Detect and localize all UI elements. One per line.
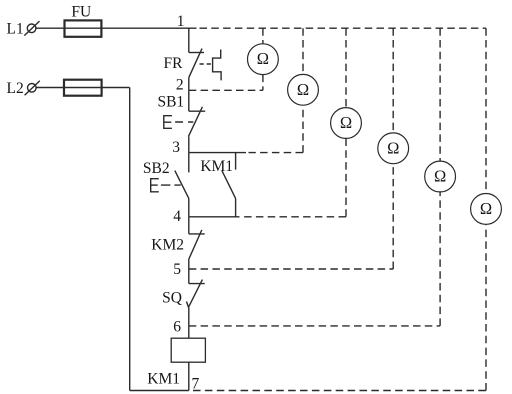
- contact KM2 (NC): [189, 217, 205, 269]
- fuse FU2: [64, 80, 102, 96]
- pushbutton SB1 (NC): [164, 107, 205, 137]
- contact KM1 (NO, parallel branch): [222, 153, 236, 217]
- coil KM1: [171, 338, 205, 362]
- wire bottom solid: [130, 390, 189, 392]
- svg-text:3: 3: [172, 139, 180, 156]
- svg-text:Ω: Ω: [340, 113, 352, 132]
- svg-text:Ω: Ω: [387, 138, 399, 157]
- terminal L2: [25, 81, 40, 96]
- svg-text:Ω: Ω: [257, 49, 269, 68]
- wire L1 to node 1: [36, 27, 197, 29]
- svg-text:FR: FR: [164, 55, 184, 72]
- wire node2 to SB1: [188, 90, 190, 111]
- wire node1 to FR: [188, 28, 190, 52]
- svg-text:L2: L2: [7, 80, 24, 97]
- svg-text:L1: L1: [7, 21, 24, 38]
- wire L2 to corner: [36, 87, 130, 89]
- svg-text:1: 1: [177, 13, 185, 30]
- svg-text:4: 4: [173, 208, 181, 225]
- svg-text:SB2: SB2: [143, 160, 170, 177]
- svg-text:FU: FU: [71, 4, 91, 21]
- wire left vertical (L2 down): [129, 88, 131, 391]
- svg-text:Ω: Ω: [434, 167, 446, 186]
- terminal L1: [24, 21, 39, 35]
- svg-text:SQ: SQ: [162, 290, 182, 307]
- wire coil to node 7: [188, 362, 190, 390]
- meter U2 (ohmmeter node1-node3): [249, 28, 319, 152]
- svg-text:SB1: SB1: [157, 94, 184, 111]
- wire FR to node 2: [188, 77, 190, 90]
- svg-text:5: 5: [173, 261, 181, 278]
- dashed bus from node 1: [200, 27, 487, 29]
- svg-text:Ω: Ω: [297, 80, 309, 99]
- svg-text:2: 2: [176, 77, 184, 94]
- svg-text:KM1: KM1: [147, 371, 180, 388]
- svg-text:7: 7: [192, 375, 200, 392]
- svg-text:Ω: Ω: [480, 199, 492, 218]
- meter U5 (ohmmeter node1-node6): [189, 28, 456, 326]
- svg-text:6: 6: [173, 319, 181, 336]
- meter U4 (ohmmeter node1-node5): [189, 28, 409, 269]
- svg-text:KM2: KM2: [151, 237, 184, 254]
- relay contact FR (NC): [189, 49, 221, 81]
- meter U1 (ohmmeter node1-node2): [189, 28, 278, 90]
- pushbutton SB2 (NO): [151, 153, 189, 217]
- wire SB1 to node 3: [188, 137, 190, 153]
- meter U3 (ohmmeter node1-node4): [240, 28, 361, 217]
- wire node6 to coil: [188, 326, 190, 338]
- fuse FU: [65, 20, 102, 36]
- limit switch SQ (NC): [187, 269, 205, 326]
- svg-text:KM1: KM1: [200, 158, 233, 175]
- wire node4: [189, 216, 240, 218]
- wire node3 branch: [189, 152, 246, 154]
- meter U6 (ohmmeter node1-node7): [193, 28, 501, 390]
